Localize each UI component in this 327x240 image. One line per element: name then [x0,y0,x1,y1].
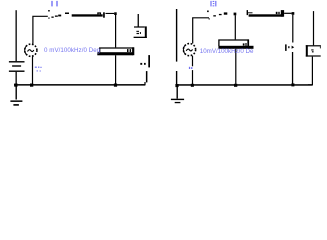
AC source circle (right) dotted outline [183,44,195,56]
battery V1 bottom lead [16,72,17,85]
AC source circle (left) dotted outline [25,44,37,56]
left column wire (right circuit) upper part [176,9,177,62]
node dot right branch (right) [291,83,294,86]
voltmeter V2 reading glyph [311,49,313,52]
bottom rail (left circuit) [14,84,145,86]
wire voltmeter down to rail corner [308,57,312,85]
node dot source branch [30,84,33,87]
wire switch to inductor [65,13,69,15]
node junction top (left circuit) [114,12,117,15]
capacitor C1 polarity marks [127,49,131,52]
capacitor C3 bottom plate [218,46,253,49]
wire C2 corner to rail [141,82,145,85]
inductor L1 right post [103,12,105,17]
capacitor C1 (polarized, top plate box) [100,48,134,55]
wire node down to capacitor C1 [115,15,116,48]
ground stem (right) [177,87,178,99]
voltmeter V2 top stub [313,11,314,45]
inductor L2 top line [248,12,253,13]
ground bar 2 (left) [13,104,19,106]
wire node down to element [292,15,293,43]
switch S2 key label [3] [210,1,216,7]
wire top-left corner to rail [33,16,48,44]
node junction (right branch, right circuit) [292,12,295,15]
switch S1 arm dashes [51,15,61,18]
capacitor C2 (right branch) top plate bar [148,55,150,67]
AC source left arc accent [25,46,27,55]
switch S2 left post dot [207,11,209,13]
switch S1 left post dot [48,10,50,12]
capacitor C3 (top plate box) [219,40,248,46]
label mark in column gap [183,46,192,69]
ammeter A1 reading glyphs [136,31,141,34]
capacitor C2 marks [140,63,145,65]
left column wire lower part [176,71,177,85]
node dot ground (right) [175,84,178,87]
battery V1 plates [9,61,25,72]
ground stem (left) [16,87,17,100]
svg-text:10mV/100kHz/0 De: 10mV/100kHz/0 De [200,48,254,55]
small element marks [288,46,294,49]
switch S1 key label [1] [51,1,57,7]
capacitor C1 bottom plate [97,52,133,55]
AC source sine squiggle [28,50,34,52]
ammeter A1 top stub [138,14,139,27]
AC source left arc accent (right) [183,45,185,54]
AC source sine squiggle (right) [186,49,192,51]
ground bar 1 (left) [10,100,22,102]
wire rail corner down to source handled above; wire source to bottom rail [32,57,33,85]
ground bar 2 (right) [175,102,181,103]
wire capacitor C1 down to rail [115,55,116,84]
inductor L2 body [249,14,284,16]
inductor L1 top bump [98,13,101,14]
wire capacitor C3 down to rail [235,49,236,85]
wire corner to rail (right circuit) [193,18,209,44]
wire node down to capacitor C3 [235,15,236,39]
small element bottom lead [292,52,293,84]
battery V1 top lead [16,10,17,61]
small element (diode/cap) left bar [285,44,287,51]
wire source (right) to bottom rail [192,56,193,66]
voltmeter V2 box [306,45,321,56]
inductor L2 right block [281,10,284,17]
battery V1 value label [35,67,42,72]
capacitor C3 right edge thick [247,39,249,48]
svg-text:0 mV/100kHz/0 Deg: 0 mV/100kHz/0 Deg [44,47,101,54]
inductor L1 body [72,14,103,16]
inductor L2 left post [247,10,248,15]
switch S1 left contact mark [48,18,49,19]
node junction (capacitor branch, right circuit) [234,13,237,16]
wire inductor to node [106,13,115,14]
ammeter A1 box [134,26,147,38]
wire inductor L2 to node [284,13,292,14]
ground bar 1 (right) [171,99,184,100]
capacitor C3 polarity marks [243,43,247,46]
switch S2 arm dashes [213,12,227,16]
capacitor C2 bottom lead [146,71,148,82]
bottom rail (right circuit) [177,84,312,86]
switch S2 left contact mark [209,18,210,19]
node dot capacitor branch [114,84,117,87]
inductor L2 bumps [276,12,280,14]
node dot source branch (right) [191,84,194,87]
node dot capacitor branch (right) [234,84,237,87]
capacitor C1 right edge thick [132,47,134,55]
node dot battery/ground [14,84,17,87]
